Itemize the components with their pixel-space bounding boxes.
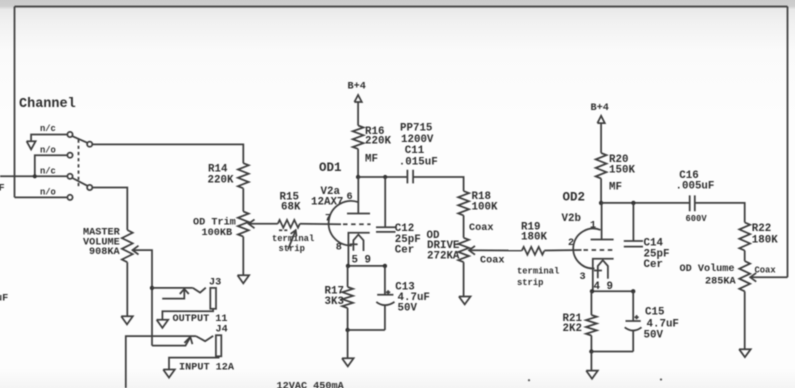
svg-text:OD Volume: OD Volume [680,263,735,275]
wire: R17 bottom to bottom junction [347,308,349,330]
V2a heater [353,235,363,251]
wire: OD Trim bottom to ground [242,237,244,276]
ground arrow under R17 [342,358,354,366]
junction dot at C12 branch [383,175,387,179]
switch arm row1 [72,136,87,143]
svg-text:5 9: 5 9 [352,255,371,267]
svg-text:Coax: Coax [755,266,777,276]
svg-text:OD2: OD2 [563,191,586,205]
wire: J4 feed line with corner down to bottom edge [126,336,196,388]
C15 plus sign [635,315,639,319]
wire: C16 right to R22 top [695,203,745,223]
svg-text:B+4: B+4 [591,103,609,114]
ground arrow under J4 [163,370,175,378]
dashed gang link between switch arms [78,140,80,187]
wire: junction down to ground [590,352,592,371]
junction dot C14 branch [631,201,635,205]
resistor R22 [739,222,750,250]
potentiometer OD Volume 285KA [739,261,750,291]
wire: J3 sleeve to ground [162,309,213,320]
wire: B+4 to R20 [600,123,602,153]
capacitor C12 plates [376,227,396,232]
V2b plate [591,239,614,241]
junction dot cathode right [383,264,387,268]
wire: R19 to grid pin 2 of V2b [544,249,581,252]
V2b plate lead [601,203,603,240]
wire: right bus x=787.5 down to OD Volume wiper [787,7,789,278]
B+ arrow up (right) [597,116,604,123]
capacitor C15 (electrolytic) top lead [632,291,634,321]
capacitor C14 leads [632,203,634,241]
svg-text:n/o: n/o [40,146,56,156]
svg-text:C11: C11 [405,145,425,157]
C13 bottom lead [384,306,386,331]
resistor R21 [586,315,597,336]
wiper arrow of OD DRIVE [469,246,475,255]
svg-text:50V: 50V [644,329,664,341]
switch contact circle row4 [67,195,72,200]
wire: junction down to ground [347,330,349,358]
wire: cathode junction line to C15 branch [593,290,633,292]
svg-text:1: 1 [590,220,596,231]
C13 curved plate [376,302,394,305]
svg-text:12VAC 450mA: 12VAC 450mA [277,382,345,388]
dash marks under R15 [279,229,287,231]
wire: from upper arm circle to R14 top [92,144,243,163]
wire: R15 to grid pin 7 of V2a [300,223,341,225]
switch arm circle upper [87,142,92,147]
junction dot cathode right (V2b) [631,289,635,293]
wire: bottom junction line to C15 bottom [591,351,633,353]
wire: R22 to OD Volume pot [744,251,746,262]
capacitor C11 plates [407,170,413,184]
svg-text:C15: C15 [645,307,664,319]
jack J3 tip contact chevron [193,288,206,293]
wire: OD Volume bottom to ground [744,291,746,349]
svg-text:Channel: Channel [19,97,76,112]
wire: J3 feed from dot to jack tip [152,287,193,289]
svg-text:uF: uF [0,294,8,305]
ground arrow under J3 [157,320,169,328]
wire: MASTER VOLUME bottom to ground [126,262,128,316]
svg-text:100K: 100K [472,202,498,214]
svg-text:3: 3 [580,272,586,283]
capacitor C14 plates [624,241,643,247]
wire: R14 bottom to OD Trim top [242,188,244,211]
wire: from lower arm circle to MASTER VOLUME pot top [92,188,127,231]
svg-text:150K: 150K [609,164,635,176]
svg-text:OUTPUT 11: OUTPUT 11 [173,314,228,325]
wire: C11 right to R18 top [413,177,464,191]
wire: left bus x=17 down to n/o row4 [14,7,16,198]
wiper arrow of MASTER VOLUME [133,246,139,255]
resistor R17 [342,287,353,308]
wire: OD Volume wiper to right bus [750,276,787,278]
svg-text:Coax: Coax [480,256,504,267]
wire: row4 n/o from left bus to contact [15,196,68,198]
wire: B+4 to R16 [357,102,359,126]
svg-text:180K: 180K [521,232,547,244]
wire: row2 n/o stub bending down to row3 [35,155,67,176]
C15 top plate [626,320,641,322]
svg-text:V2b: V2b [562,213,581,225]
ground arrow under row1 n/c [27,141,36,149]
V2a plate [347,213,370,215]
svg-text:285KA: 285KA [705,276,736,287]
svg-text:50V: 50V [398,302,418,314]
svg-text:.005uF: .005uF [676,181,715,193]
ground arrow under R21 [586,371,598,379]
V2a grid (dashed) [343,223,371,225]
capacitor C12 leads [384,177,386,227]
switch arm row3 [72,178,87,186]
resistor R16 [353,126,364,149]
svg-text:OD Trim: OD Trim [193,216,236,228]
V2b cathode [593,259,614,292]
svg-text:68K: 68K [281,202,301,214]
svg-text:INPUT 12A: INPUT 12A [179,362,235,373]
svg-text:strip: strip [517,278,543,288]
switch contact circle row1 [67,132,72,137]
pointer arrow from terminal strip to R15 junction [288,232,295,250]
wiper arrow of OD Trim [249,219,255,228]
svg-text:MF: MF [609,181,622,193]
potentiometer MASTER VOLUME 908KA [122,230,133,262]
svg-text:n/c: n/c [40,167,56,177]
junction dot below R21 [589,349,593,353]
svg-text:F: F [0,184,5,195]
wire: row1 n/c stub with bend down [31,135,67,142]
jack J3 sleeve [210,288,216,309]
svg-text:J3: J3 [209,278,221,289]
junction dot cathode left [346,264,350,268]
svg-text:n/c: n/c [40,124,56,134]
svg-text:J4: J4 [216,325,228,336]
wire: J4 sleeve to ground [169,356,219,369]
V2a plate lead [357,177,359,214]
V2a heater tick [350,243,358,245]
svg-text:R22: R22 [752,223,771,235]
wire: row3 n/c from left image edge to contact [0,175,67,177]
stray print dot right [660,378,662,380]
ground arrow under OD Trim [238,275,250,283]
junction dot J3 feed [150,286,154,290]
wire: R18 bottom to OD DRIVE pot [463,215,465,237]
wire: junction to R21 [590,291,592,315]
C15 curved plate [625,327,642,330]
svg-text:n/o: n/o [40,188,56,198]
triode V2b envelope arc [573,229,600,269]
C13 top plate [377,294,393,296]
ground arrow under MASTER VOLUME [121,316,133,324]
resistor R18 [458,191,469,215]
junction dot cathode left (V2b) [590,289,594,293]
resistor R15 [278,220,300,228]
wire: OD DRIVE wiper to R19 [469,249,522,251]
resistor R19 [522,247,545,255]
stray print dot left [528,379,530,381]
capacitor C13 (electrolytic) top lead [384,266,386,295]
resistor R20 [596,153,607,179]
wire: top bus from top-left corner to right edge [15,6,788,8]
wire: bottom junction line to C13 bottom [348,329,385,331]
svg-text:908KA: 908KA [89,247,120,258]
svg-text:B+4: B+4 [348,82,366,93]
wiper arrow of OD Volume [750,273,756,282]
svg-text:Cer: Cer [644,259,663,271]
svg-text:terminal: terminal [517,266,559,276]
wire: R20 bottom to plate node [600,179,602,203]
svg-text:Coax: Coax [469,223,493,234]
resistor R14 [238,163,249,188]
svg-text:2K2: 2K2 [563,323,582,335]
wire: OD DRIVE bottom to ground [463,262,465,296]
wire: plate node bus to C16 [601,202,690,204]
junction dot below R17 [345,328,349,332]
wire: OD Trim wiper to R15 [249,223,278,225]
jack J4 sleeve [216,335,221,356]
C13 plus sign [386,290,390,294]
wire: R16 bottom to plate junction [357,149,359,177]
wire: MASTER VOLUME wiper to J3 junction [133,250,153,346]
wire: plate node to C11 [358,176,407,178]
ground arrow under OD Volume [739,349,751,357]
switch contact circle row2 [67,153,72,158]
junction dot at R16 bottom [356,175,360,179]
svg-text:PP715: PP715 [400,123,432,135]
C15 bottom lead [632,331,634,352]
potentiometer OD Trim 100KB [238,212,249,237]
junction dot row2/row3 [33,174,37,178]
V2b heater tick [594,270,602,272]
jack J4 tip contact chevron [196,336,213,341]
potentiometer OD DRIVE 272KA [458,238,469,262]
wire: junction to R17 [347,266,349,287]
capacitor C16 plates [690,195,695,211]
svg-text:3K3: 3K3 [325,296,344,308]
V2b heater [598,260,608,279]
svg-text:strip: strip [279,244,305,254]
junction dot R20 bottom [599,201,603,205]
V2b grid (dashed) [584,249,614,251]
svg-text:272KA: 272KA [427,250,460,262]
wire: cathode junction line to C13 [348,265,385,267]
jack J3 switch arm arrow [162,290,184,299]
svg-text:.015uF: .015uF [399,157,438,169]
svg-text:Cer: Cer [395,244,414,256]
B+ arrow up (left) [354,95,361,102]
svg-text:12AX7: 12AX7 [311,196,343,208]
jack J4 switch arm arrow [152,338,190,346]
V2a cathode [348,233,369,266]
wire: R21 bottom to bottom junction [590,336,592,352]
svg-text:OD1: OD1 [319,161,342,175]
svg-text:220K: 220K [365,136,391,148]
svg-text:180K: 180K [752,235,778,247]
svg-text:MF: MF [365,153,378,165]
svg-text:600V: 600V [686,214,708,224]
ground arrow under OD DRIVE [459,297,471,305]
svg-text:220K: 220K [208,175,234,187]
switch arm circle lower [87,185,92,190]
svg-text:100KB: 100KB [202,228,233,239]
triode V2a envelope arc [329,201,358,246]
switch contact circle row3 [67,174,72,179]
